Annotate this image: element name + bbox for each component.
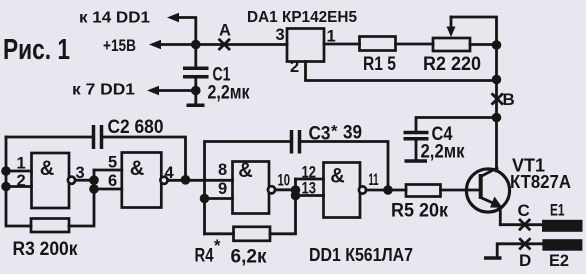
op-amp regulator DA1 — [287, 29, 324, 62]
junction R2 output — [492, 40, 502, 50]
svg-text:39: 39 — [343, 123, 362, 144]
gate DD1.4 — [324, 163, 361, 218]
wire pin6 — [94, 188, 122, 191]
wire R2 right to rail — [470, 43, 497, 46]
node B — [493, 94, 503, 103]
svg-text:6: 6 — [108, 172, 117, 190]
node D — [520, 239, 529, 248]
wire pin9 — [205, 197, 233, 200]
left vertical bus — [6, 137, 31, 226]
wire pin2 — [6, 185, 32, 188]
svg-text:КТ827А: КТ827А — [510, 172, 571, 192]
junction pin13 — [291, 191, 301, 201]
svg-text:E2: E2 — [549, 251, 569, 270]
svg-text:*: * — [331, 123, 338, 141]
capacitor C3 — [205, 142, 291, 234]
junction pin2 — [1, 182, 11, 192]
junction pin3-bus — [89, 175, 99, 185]
wire pin12 — [296, 178, 324, 181]
capacitor C4 — [416, 118, 497, 132]
wire pin1 — [6, 170, 32, 173]
wiper of R2 — [451, 17, 497, 45]
svg-text:&: & — [130, 157, 145, 180]
gate DD1.3 — [233, 162, 270, 214]
ground below C1 — [194, 91, 197, 105]
wire ground to electrode E2 — [497, 244, 542, 257]
svg-text:&: & — [40, 157, 55, 180]
svg-text:2: 2 — [290, 58, 299, 76]
svg-text:D: D — [519, 251, 531, 270]
svg-text:DA1 КР142ЕН5: DA1 КР142ЕН5 — [247, 9, 357, 26]
output bubble DD1.3 — [268, 186, 275, 193]
wire +15V with arrow — [159, 43, 196, 46]
svg-text:R2 220: R2 220 — [423, 54, 481, 75]
svg-text:В: В — [503, 90, 515, 109]
svg-text:А: А — [219, 22, 231, 40]
svg-text:10: 10 — [278, 172, 291, 190]
wire pin5 — [94, 169, 122, 172]
svg-text:8: 8 — [218, 161, 227, 179]
svg-text:R3 200к: R3 200к — [13, 239, 78, 260]
resistor R4 — [234, 227, 271, 241]
svg-text:2,2мк: 2,2мк — [421, 142, 465, 163]
svg-text:11: 11 — [369, 171, 379, 189]
svg-text:C3: C3 — [309, 124, 331, 145]
svg-text:к 7 DD1: к 7 DD1 — [72, 82, 135, 99]
resistor R5 — [406, 185, 441, 197]
svg-text:R1 5: R1 5 — [363, 54, 396, 75]
wire DA1 pin1 to R1 — [324, 43, 360, 46]
svg-text:+15В: +15В — [103, 36, 136, 55]
wire pin3 output — [75, 179, 94, 182]
svg-text:&: & — [238, 159, 253, 182]
gate DD1.2 — [122, 153, 162, 208]
wire emitter to electrode E1 — [500, 223, 542, 226]
vertical pin5/6 bus — [69, 170, 94, 226]
electrode E1 — [542, 220, 583, 232]
svg-text:R5 20к: R5 20к — [391, 201, 448, 222]
wire pin11 output — [366, 189, 406, 192]
svg-text:R4: R4 — [195, 246, 214, 267]
junction pin2 line — [492, 75, 502, 85]
capacitor C2 — [6, 136, 92, 139]
svg-text:&: & — [330, 165, 345, 188]
svg-text:2,2мк: 2,2мк — [208, 83, 250, 104]
resistor R2 (rheostat) — [433, 38, 470, 51]
junction pin10 — [291, 185, 301, 195]
svg-text:6,2к: 6,2к — [231, 247, 267, 268]
capacitor C1 — [194, 45, 197, 91]
junction C3 right — [383, 185, 393, 195]
svg-text:DD1 К561ЛА7: DD1 К561ЛА7 — [309, 245, 413, 265]
wire R5 to base — [441, 189, 481, 192]
wire to 14 DD1 with arrow — [177, 18, 196, 45]
wire pin13 — [296, 194, 324, 197]
svg-text:9: 9 — [218, 180, 227, 198]
svg-text:С: С — [518, 201, 530, 220]
junction C4 — [492, 113, 502, 123]
junction C2 right — [181, 175, 191, 185]
svg-text:к 14 DD1: к 14 DD1 — [79, 10, 150, 27]
wire pin4 output — [168, 179, 233, 182]
ground below C4 — [405, 159, 428, 163]
output bubble DD1.2 — [160, 177, 167, 184]
node A — [220, 40, 230, 49]
wire right rail down — [495, 45, 498, 171]
junction pin1 — [1, 166, 11, 176]
svg-text:*: * — [214, 237, 221, 255]
junction pin6-bus — [89, 184, 99, 194]
resistor R3 — [31, 219, 69, 233]
junction pin9 — [200, 194, 210, 204]
wire R1 to R2 — [396, 43, 434, 46]
transistor VT1 — [466, 169, 509, 212]
svg-text:Рис. 1: Рис. 1 — [3, 34, 70, 66]
wire +15V rail to DA1 pin3 — [196, 43, 287, 46]
output bubble DD1.4 — [359, 186, 366, 193]
gate DD1.1 — [32, 153, 70, 208]
wire DA1 pin2 down and right — [306, 62, 497, 81]
junction +15V node — [191, 40, 201, 50]
wire pin10 output — [275, 188, 295, 191]
svg-text:3: 3 — [276, 26, 285, 44]
resistor R1 — [360, 37, 396, 51]
svg-text:C2 680: C2 680 — [108, 117, 164, 138]
wire to 7 DD1 with arrow — [157, 89, 196, 92]
svg-text:E1: E1 — [550, 201, 565, 220]
node C — [520, 220, 529, 229]
junction C1 bottom — [191, 86, 201, 96]
output bubble DD1.1 — [68, 177, 75, 184]
ground bottom — [484, 256, 502, 260]
electrode E2 — [542, 239, 582, 251]
